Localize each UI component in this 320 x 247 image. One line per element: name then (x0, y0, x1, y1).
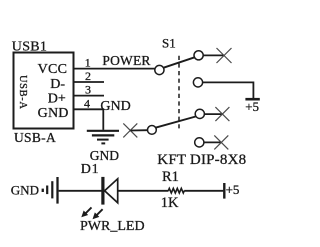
svg-text:R1: R1 (162, 169, 179, 185)
wire pole1 to no-connect (203, 54, 224, 56)
ground symbol rotated bottom left (42, 177, 58, 204)
wire pole3 left (130, 129, 147, 131)
svg-text:GND: GND (100, 99, 130, 114)
svg-text:1K: 1K (161, 195, 179, 211)
switch S1 pole1 right contact (194, 51, 203, 60)
switch S1 pole2 contact (193, 78, 202, 87)
svg-text:USB-A: USB-A (17, 75, 28, 110)
svg-text:+5: +5 (245, 99, 259, 114)
switch S1 pole3 left contact (148, 125, 157, 134)
mechanical link dashed line (178, 56, 180, 130)
no-connect X pole3 left (123, 123, 137, 137)
svg-text:POWER: POWER (102, 53, 150, 68)
switch S1 pole3 lever (156, 117, 196, 128)
svg-text:PWR_LED: PWR_LED (80, 219, 145, 234)
no-connect X pole3 right (215, 107, 229, 121)
wire pin3 stub (74, 95, 105, 97)
+5 terminal bar top (245, 98, 259, 101)
svg-text:USB-A: USB-A (14, 130, 56, 145)
LED D1 triangle (105, 179, 118, 203)
wire pin2 stub (74, 81, 105, 83)
wire pole4 to no-connect (204, 141, 221, 143)
svg-text:D1: D1 (81, 162, 100, 177)
LED D1 cathode bar (101, 177, 104, 205)
resistor R1 zigzag (168, 188, 184, 193)
switch S1 pole3 right contact (195, 109, 204, 118)
svg-text:D+: D+ (48, 92, 66, 107)
switch S1 pole1 left contact (155, 65, 164, 74)
no-connect X pole1 (217, 48, 232, 63)
svg-text:+5: +5 (226, 182, 240, 197)
svg-text:1: 1 (85, 56, 91, 70)
ground symbol under pin4 (87, 131, 119, 144)
switch S1 pole4 contact (195, 138, 204, 147)
wire resistor to +5 (184, 190, 223, 192)
no-connect X pole4 (214, 135, 228, 149)
switch S1 pole1 lever (164, 57, 195, 67)
svg-text:GND: GND (38, 106, 69, 121)
wire LED to resistor (118, 190, 169, 192)
svg-text:VCC: VCC (38, 62, 68, 77)
svg-text:KFT DIP-8X8: KFT DIP-8X8 (157, 152, 246, 168)
svg-text:2: 2 (85, 69, 91, 83)
wire pole2 to +5 (203, 82, 254, 98)
wire pin1 to switch (74, 68, 156, 70)
wire pin4 to ground (74, 109, 104, 130)
LED D1 emission arrow 1 (81, 207, 91, 217)
svg-text:D-: D- (50, 77, 65, 92)
+5 terminal bar bottom (223, 183, 225, 199)
svg-text:3: 3 (85, 83, 91, 97)
wire pole3 to no-connect (204, 113, 222, 115)
svg-text:S1: S1 (162, 35, 176, 50)
wire ground to LED (59, 190, 102, 192)
LED D1 emission arrow 2 (93, 209, 103, 219)
svg-text:GND: GND (11, 183, 39, 198)
svg-text:GND: GND (90, 148, 119, 163)
svg-text:4: 4 (84, 96, 90, 110)
connector USB1 box (14, 53, 74, 129)
